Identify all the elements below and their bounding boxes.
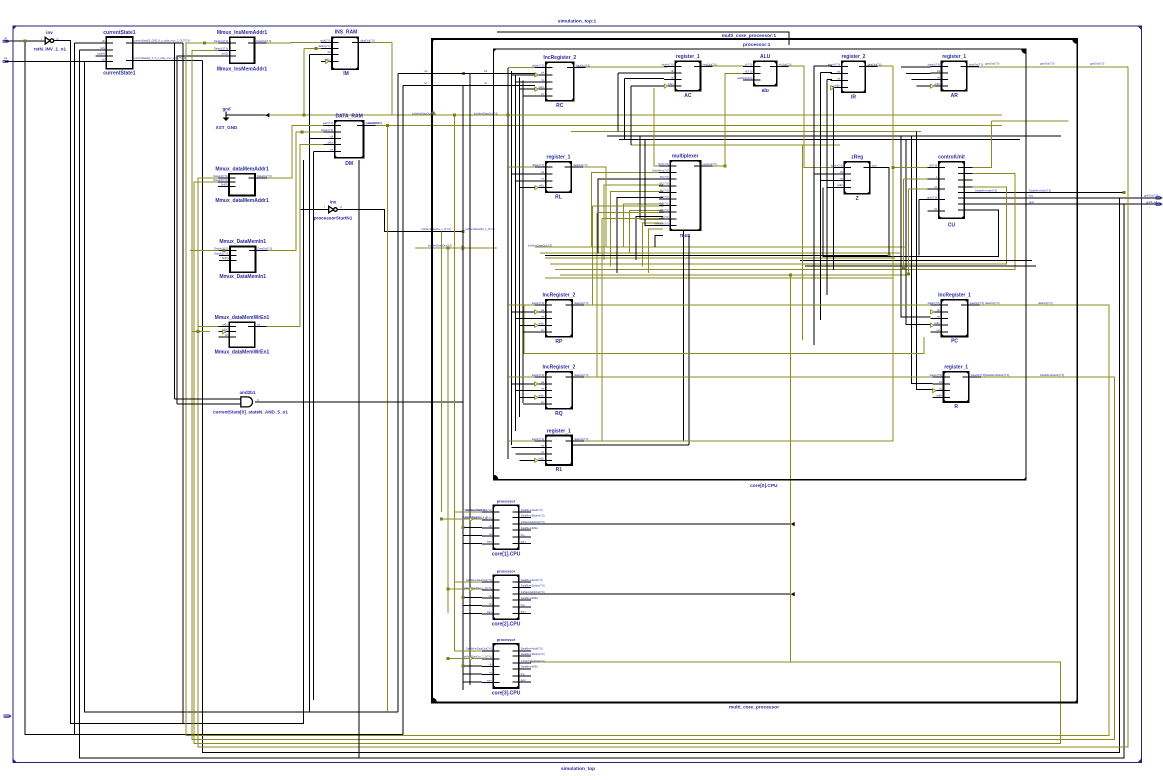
svg-text:dataIn(7:0): dataIn(7:0) [928, 63, 940, 67]
svg-text:wrEn: wrEn [538, 456, 544, 460]
svg-text:IR(7:0): IR(7:0) [929, 163, 937, 167]
svg-text:wrEn: wrEn [538, 393, 544, 397]
svg-text:addr(7:0): addr(7:0) [320, 39, 330, 43]
svg-text:RL(7:0): RL(7:0) [660, 188, 669, 192]
svg-text:zReg: zReg [851, 155, 863, 161]
svg-text:DataMemAddr(7:0): DataMemAddr(7:0) [1029, 189, 1051, 193]
svg-text:ACC(7:0): ACC(7:0) [658, 162, 669, 166]
svg-text:DataMemWrEn: DataMemWrEn [521, 665, 539, 669]
svg-text:dataOut(7:0): dataOut(7:0) [574, 437, 588, 441]
svg-text:DataIn1(7:0): DataIn1(7:0) [214, 39, 228, 43]
svg-text:B(7:0): B(7:0) [745, 69, 752, 73]
svg-text:DataIn2(7:0): DataIn2(7:0) [213, 178, 227, 182]
svg-text:dataIn(7:0): dataIn(7:0) [532, 301, 544, 305]
svg-text:IR: IR [851, 95, 856, 101]
svg-text:RP: RP [555, 339, 563, 345]
svg-text:register_1: register_1 [547, 428, 571, 434]
svg-text:dataIn(7:0): dataIn(7:0) [831, 163, 843, 167]
svg-text:gpioOut(7:0): gpioOut(7:0) [1090, 61, 1105, 65]
svg-text:start: start [487, 679, 492, 683]
svg-text:wrEn: wrEn [538, 85, 544, 89]
svg-text:rst: rst [424, 81, 427, 85]
svg-text:wrEn: wrEn [936, 393, 942, 397]
svg-text:InsMemDataOut_1_0(7:0): InsMemDataOut_1_0(7:0) [462, 586, 492, 590]
svg-text:simulation_top: simulation_top [561, 766, 595, 772]
svg-text:core[3].CPU: core[3].CPU [492, 690, 521, 696]
svg-text:dataIn(7:0): dataIn(7:0) [318, 44, 330, 48]
svg-text:dataIn(7:0): dataIn(7:0) [661, 63, 673, 67]
svg-text:bsy: bsy [1029, 194, 1034, 198]
svg-text:rst: rst [102, 57, 105, 61]
svg-text:gpio: gpio [521, 539, 526, 543]
svg-text:register_2: register_2 [842, 54, 866, 60]
svg-text:gpio: gpio [521, 678, 526, 682]
svg-text:DataMemDataIn(7:0): DataMemDataIn(7:0) [521, 652, 545, 656]
svg-text:dataOut(7:0): dataOut(7:0) [576, 64, 590, 68]
svg-text:gpio: gpio [1029, 200, 1034, 204]
svg-text:RC: RC [556, 103, 564, 109]
svg-text:core[2].CPU: core[2].CPU [492, 622, 521, 628]
svg-text:IncRegister_1: IncRegister_1 [938, 293, 971, 299]
svg-text:rst: rst [541, 315, 544, 319]
svg-text:currentState1: currentState1 [103, 30, 135, 36]
svg-text:IncRegister_2: IncRegister_2 [542, 293, 575, 299]
svg-text:dataOut(7:0): dataOut(7:0) [969, 63, 983, 67]
svg-text:InsMemDataOut(7:0): InsMemDataOut(7:0) [474, 111, 498, 115]
svg-text:rst: rst [484, 81, 487, 85]
svg-text:RL: RL [555, 194, 562, 200]
svg-text:rst: rst [939, 387, 942, 391]
svg-text:IncRegister_2: IncRegister_2 [543, 55, 576, 61]
svg-text:R: R [954, 404, 958, 410]
svg-text:wrEn: wrEn [327, 141, 333, 145]
svg-text:R1: R1 [556, 467, 563, 473]
svg-text:rst: rst [937, 314, 940, 318]
svg-text:multi_core_processor: multi_core_processor [729, 704, 779, 710]
svg-text:Mmux_DataMemIn1: Mmux_DataMemIn1 [219, 239, 266, 245]
svg-text:InsMemDataOut(7:0): InsMemDataOut(7:0) [528, 244, 552, 248]
svg-text:DataMemDataOut(7:0): DataMemDataOut(7:0) [466, 578, 492, 582]
svg-text:currentState[2]_X_8_o_wide_mux: currentState[2]_X_8_o_wide_mux_1_OUT(7:0… [134, 57, 186, 60]
svg-text:dataIn(7:0): dataIn(7:0) [532, 373, 544, 377]
svg-text:AC: AC [684, 93, 692, 99]
svg-text:wrEn: wrEn [834, 84, 840, 88]
svg-text:rst: rst [541, 177, 544, 181]
svg-text:multiplexer: multiplexer [672, 154, 699, 160]
svg-text:DM: DM [345, 161, 353, 167]
svg-text:core[1].CPU: core[1].CPU [492, 552, 521, 558]
svg-text:AR: AR [951, 93, 959, 99]
svg-text:Mmux_dataMemAddr1: Mmux_dataMemAddr1 [215, 166, 269, 172]
svg-text:gpioOut(7:0): gpioOut(7:0) [1040, 61, 1055, 65]
svg-text:DataMemAddr(7:0): DataMemAddr(7:0) [521, 647, 543, 651]
svg-text:PC: PC [951, 339, 958, 345]
svg-text:rst: rst [837, 77, 840, 81]
svg-text:Mmux_InsMemAddr1: Mmux_InsMemAddr1 [217, 30, 268, 36]
svg-text:rst: rst [937, 76, 940, 80]
svg-text:rst: rst [330, 147, 333, 151]
svg-text:currentState1: currentState1 [103, 71, 135, 77]
svg-text:dataIn(7:0): dataIn(7:0) [532, 163, 544, 167]
svg-text:Mmux_dataMemWrEn1: Mmux_dataMemWrEn1 [215, 350, 270, 356]
svg-text:Mmux_DataMemIn1: Mmux_DataMemIn1 [219, 274, 266, 280]
svg-text:dataOut(7:0): dataOut(7:0) [971, 373, 985, 377]
svg-text:O: O [257, 398, 259, 402]
svg-text:DataMemAddr(7:0): DataMemAddr(7:0) [521, 508, 543, 512]
svg-text:rst: rst [4, 36, 7, 40]
svg-text:Z: Z [856, 196, 859, 202]
svg-text:gnd: gnd [222, 107, 230, 112]
svg-text:controlUnit: controlUnit [938, 155, 965, 161]
svg-text:rst: rst [840, 177, 843, 181]
svg-text:dataIn(7:0): dataIn(7:0) [532, 437, 544, 441]
svg-text:gpin(7:0): gpin(7:0) [927, 195, 937, 199]
svg-text:Mmux_InsMemAddr1: Mmux_InsMemAddr1 [217, 67, 268, 73]
svg-text:selector(3:0): selector(3:0) [654, 221, 668, 225]
svg-text:DataMemDataIn(7:0): DataMemDataIn(7:0) [521, 513, 545, 517]
svg-text:rst: rst [934, 185, 937, 189]
svg-text:DataMemWrEn: DataMemWrEn [521, 526, 539, 530]
svg-text:gpioOut(7:0): gpioOut(7:0) [985, 61, 1000, 65]
svg-text:R1(7:0): R1(7:0) [660, 208, 669, 212]
svg-text:processorStartN1: processorStartN1 [314, 215, 353, 220]
svg-text:Sel(0): Sel(0) [221, 52, 228, 56]
svg-text:wrEn: wrEn [668, 82, 674, 86]
svg-text:rstN: rstN [100, 46, 105, 50]
svg-text:muxOut(7:0): muxOut(7:0) [703, 162, 717, 166]
svg-text:DataMemDataIn(7:0): DataMemDataIn(7:0) [1040, 373, 1064, 377]
svg-text:alu: alu [762, 88, 769, 94]
svg-text:InsMemAddrOut(7:0): InsMemAddrOut(7:0) [521, 659, 545, 663]
svg-text:RC(7:0): RC(7:0) [660, 182, 669, 186]
svg-text:IR(7:0): IR(7:0) [661, 215, 669, 219]
svg-text:RQ(7:0): RQ(7:0) [660, 202, 669, 206]
svg-text:dataOut(7:0): dataOut(7:0) [573, 163, 587, 167]
svg-text:dataIn(7:0): dataIn(7:0) [930, 373, 942, 377]
svg-text:Mmux_dataMemAddr1: Mmux_dataMemAddr1 [215, 198, 269, 204]
svg-text:InsMemDataOut(7:0): InsMemDataOut(7:0) [412, 111, 436, 115]
svg-text:wrEn: wrEn [222, 322, 228, 326]
svg-text:dataOut(7:0): dataOut(7:0) [703, 63, 717, 67]
svg-text:DataMemOut(7:0): DataMemOut(7:0) [465, 508, 486, 512]
svg-text:core[0].CPU: core[0].CPU [750, 483, 778, 489]
svg-text:DataMemWrEn: DataMemWrEn [521, 596, 539, 600]
svg-text:dataOut(7:0): dataOut(7:0) [574, 301, 588, 305]
svg-text:rst: rst [541, 450, 544, 454]
svg-text:gpio: gpio [521, 609, 526, 613]
svg-text:InsMemAddrOut(7:0): InsMemAddrOut(7:0) [521, 590, 545, 594]
svg-text:IncRegister_2: IncRegister_2 [542, 365, 575, 371]
svg-text:ALU: ALU [760, 54, 771, 60]
svg-text:dataIn(7:0): dataIn(7:0) [828, 63, 840, 67]
svg-text:simulation_top:1: simulation_top:1 [558, 18, 597, 24]
svg-text:inv: inv [330, 199, 337, 204]
svg-text:rst: rst [671, 76, 674, 80]
svg-text:INS_RAM: INS_RAM [335, 30, 358, 36]
svg-text:inv: inv [46, 30, 53, 35]
svg-text:register_1: register_1 [942, 54, 966, 60]
svg-text:IM: IM [343, 71, 349, 77]
svg-text:rst: rst [541, 387, 544, 391]
svg-text:DataMemDataIn(7:0): DataMemDataIn(7:0) [985, 373, 1009, 377]
svg-text:processor:1: processor:1 [743, 42, 771, 48]
svg-text:CU: CU [948, 222, 956, 228]
svg-text:register_1: register_1 [547, 155, 571, 161]
svg-text:rst: rst [541, 78, 544, 82]
svg-text:processor: processor [497, 569, 516, 573]
svg-text:XST_GND: XST_GND [216, 125, 238, 130]
svg-text:dataOut(7:0): dataOut(7:0) [1038, 301, 1053, 305]
svg-text:dataOut(7:0): dataOut(7:0) [985, 301, 1000, 305]
svg-text:start: start [487, 610, 492, 614]
svg-text:PC(7:0): PC(7:0) [660, 175, 669, 179]
svg-text:Sel(0): Sel(0) [221, 182, 228, 186]
svg-text:zout: zout [872, 163, 877, 167]
svg-text:InsMemDataOut_1_0(7:0): InsMemDataOut_1_0(7:0) [462, 655, 492, 659]
svg-text:DataIn1(7:0): DataIn1(7:0) [214, 247, 228, 251]
svg-text:out: out [257, 322, 261, 326]
svg-text:aluMode(3:0): aluMode(3:0) [737, 76, 752, 80]
svg-text:register_1: register_1 [676, 54, 700, 60]
svg-text:dataIn(7:0): dataIn(7:0) [532, 64, 544, 68]
svg-text:dataOut(7:0): dataOut(7:0) [368, 121, 383, 125]
svg-text:DataOut(7:0): DataOut(7:0) [257, 174, 272, 178]
svg-text:rst: rst [489, 602, 492, 606]
svg-text:RP(7:0): RP(7:0) [660, 195, 669, 199]
svg-text:currentState[2]_GND_8_o_wide_m: currentState[2]_GND_8_o_wide_mux_2_OUT(7… [134, 40, 190, 43]
svg-text:rst: rst [489, 671, 492, 675]
svg-text:Sel(0): Sel(0) [222, 256, 229, 260]
svg-text:dataOut(7:0): dataOut(7:0) [867, 63, 881, 67]
svg-text:wrEn: wrEn [538, 321, 544, 325]
svg-text:wrEn: wrEn [837, 183, 843, 187]
svg-text:O: O [340, 206, 342, 209]
svg-text:wrEn: wrEn [934, 82, 940, 86]
svg-text:DataIn2(7:0): DataIn2(7:0) [214, 251, 228, 255]
svg-text:InsMemDataOut(7:0): InsMemDataOut(7:0) [428, 244, 452, 248]
svg-text:DataMem(7:0): DataMem(7:0) [652, 168, 668, 172]
svg-text:O: O [57, 37, 59, 41]
svg-text:DataMemDataIn(7:0): DataMemDataIn(7:0) [521, 583, 545, 587]
svg-text:currentState[0]_stateN_AND_5_o: currentState[0]_stateN_AND_5_o1 [213, 410, 288, 415]
svg-text:DataMemAddr(7:0): DataMemAddr(7:0) [521, 578, 543, 582]
svg-text:dataOut(7:0): dataOut(7:0) [360, 39, 374, 43]
svg-text:addr(7:0): addr(7:0) [323, 121, 333, 125]
svg-text:DataOut(7:0): DataOut(7:0) [258, 247, 273, 251]
svg-text:InsMemDataOut_1_0(7:0): InsMemDataOut_1_0(7:0) [421, 227, 451, 231]
svg-text:Mmux_dataMemWrEn1: Mmux_dataMemWrEn1 [215, 315, 270, 321]
svg-text:stateN: stateN [97, 52, 105, 56]
svg-text:and2b1: and2b1 [239, 390, 256, 395]
svg-text:processor: processor [497, 499, 516, 503]
svg-text:start: start [487, 540, 492, 544]
svg-text:dataIn(7:0): dataIn(7:0) [928, 301, 940, 305]
svg-text:wrEn: wrEn [934, 321, 940, 325]
svg-text:RQ: RQ [555, 411, 563, 417]
svg-text:rst: rst [225, 333, 228, 337]
svg-text:DataIn2(7:0): DataIn2(7:0) [214, 47, 228, 51]
svg-text:rst: rst [489, 532, 492, 536]
svg-text:DataMemDataOut(7:0): DataMemDataOut(7:0) [466, 647, 492, 651]
svg-text:InsMemAddrOut(7:0): InsMemAddrOut(7:0) [521, 520, 545, 524]
svg-text:multi_core_processor:1: multi_core_processor:1 [722, 33, 777, 39]
svg-text:dataOut(7:0): dataOut(7:0) [574, 373, 588, 377]
svg-text:dataOut(7:0): dataOut(7:0) [970, 301, 984, 305]
svg-text:DataMemAddr(7:0): DataMemAddr(7:0) [975, 189, 997, 193]
svg-text:register_1: register_1 [944, 365, 968, 371]
svg-text:rstN_INV_1_o1: rstN_INV_1_o1 [34, 47, 67, 52]
svg-text:A(7:0): A(7:0) [745, 62, 752, 66]
svg-text:processor: processor [497, 638, 516, 642]
svg-text:DATA_RAM: DATA_RAM [335, 113, 362, 119]
svg-text:DataOut(7:0): DataOut(7:0) [257, 39, 272, 43]
svg-text:wrEn: wrEn [538, 184, 544, 188]
svg-text:dataIn(7:0): dataIn(7:0) [321, 128, 333, 132]
svg-text:mux: mux [680, 233, 691, 239]
svg-text:InsMemDataOut_1_0: InsMemDataOut_1_0 [463, 515, 488, 519]
svg-text:aluOut(7:0): aluOut(7:0) [779, 62, 792, 66]
svg-text:DataIn1(7:0): DataIn1(7:0) [213, 174, 227, 178]
